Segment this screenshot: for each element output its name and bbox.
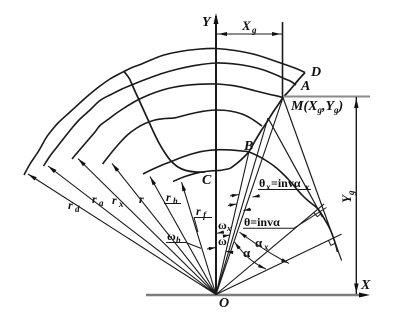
radius line r_x arrowhead [78,159,86,167]
radius line r_b [150,177,216,295]
Y axis [215,16,217,295]
Y_g bottom arrowhead [354,284,359,294]
svg-text:B: B [243,139,253,154]
theta_x arrow left tail [230,195,239,197]
svg-text:X: X [241,18,251,33]
underline r_b [164,203,181,205]
X_g left arrowhead [218,32,227,36]
svg-text:r: r [139,192,144,206]
underline r_f [194,217,212,219]
underline omega_b [166,242,186,244]
svg-text:ω: ω [167,229,176,243]
svg-text:b: b [176,235,181,245]
theta arrow right [244,208,251,211]
underline theta_x [258,189,311,191]
theta_x arrow right [253,194,260,197]
svg-text:a: a [99,198,104,208]
svg-text:Y: Y [202,15,212,30]
svg-text:r: r [92,192,97,206]
omega_x right arrow tail [223,235,230,236]
svg-text:=invα: =invα [271,176,301,190]
leader theta to right angle mark [294,208,327,229]
radius line OM [216,98,283,295]
omega_x left arrow tail [217,232,224,233]
arc root circle r_f [173,169,230,182]
svg-text:C: C [202,173,212,188]
radius line r_f [182,182,216,294]
svg-text:θ=invα: θ=invα [244,215,280,229]
svg-text:α: α [243,245,251,260]
arc tip circle r_d [24,48,305,175]
right angle mark at pitch tangent point [314,213,322,217]
alpha_x angle arc [239,232,289,263]
right tooth flank involute through B M A D [230,73,305,169]
arc circle r_x [72,84,283,159]
svg-text:D: D [310,65,321,80]
svg-text:r: r [166,190,171,204]
radius line r_x [78,159,216,295]
X_g right arrowhead [272,32,281,36]
radius line r_a arrowhead [48,166,56,173]
Y axis arrowhead [214,13,219,24]
alpha arc end arrowhead [258,264,266,269]
dimension line Y_g [355,97,357,294]
alpha arc start arrowhead [235,242,241,250]
svg-text:ω: ω [218,218,227,232]
theta_x arrow right tail [253,196,261,197]
horizontal line through M [283,96,370,98]
svg-text:ω: ω [218,234,227,248]
underline theta [243,227,294,229]
svg-text:r: r [112,193,117,207]
svg-text:g: g [251,25,257,35]
radius line r_b arrowhead [150,177,156,186]
theta arrow right tail [244,209,252,210]
omega_x arrow at OB line [223,235,230,238]
theta_x arrow left [232,194,239,197]
svg-text:X: X [360,278,371,293]
svg-text:x: x [226,224,231,233]
alpha_x arc end arrowhead [281,258,289,263]
radius line O to pitch point on flank [216,118,268,295]
generating tangent line from pitch point [268,118,322,217]
vertical extension line through M [282,22,284,98]
svg-text:x: x [304,182,310,192]
omega arrow left [209,247,216,250]
alpha_x arc start arrowhead [239,232,247,238]
X axis [146,294,364,296]
X axis arrowhead [359,293,370,298]
arc pitch circle r [103,110,262,164]
radius line r_f arrowhead [182,182,187,191]
radius line r_d [28,174,216,295]
Y_g top arrowhead [354,98,359,108]
radius line r_a [48,166,216,295]
svg-text:d: d [75,204,80,214]
svg-text:O: O [219,296,229,311]
generating tangent line from M [283,98,342,261]
left tooth flank curve [124,71,206,172]
theta arrow left tail [228,204,237,206]
svg-text:r: r [68,198,73,212]
radius line r_d arrowhead [28,174,37,181]
right angle mark at tangent point of M [329,240,336,245]
arc base circle r_b [143,150,338,252]
line O to tangent point of M [216,234,342,294]
dimension line X_g [217,33,282,35]
radius line OB [216,152,249,295]
alpha angle arc [235,242,267,269]
leader r_f [194,218,198,233]
svg-text:θ: θ [259,176,265,190]
omega right arrow tail [226,251,233,253]
leader omega_b [186,243,201,249]
arc circle r_a [44,63,297,166]
radius line r [112,164,216,295]
omega arrow right [226,251,233,254]
svg-text:x: x [118,199,124,209]
radius line r arrowhead [112,164,119,172]
omega left arrow tail [207,248,216,250]
theta arrow left [229,204,236,207]
svg-text:r: r [196,204,201,218]
svg-text:A: A [300,79,310,94]
svg-text:b: b [173,196,178,206]
omega_x arrow at Y axis [217,230,224,233]
line O to pitch tangent point [216,204,324,295]
